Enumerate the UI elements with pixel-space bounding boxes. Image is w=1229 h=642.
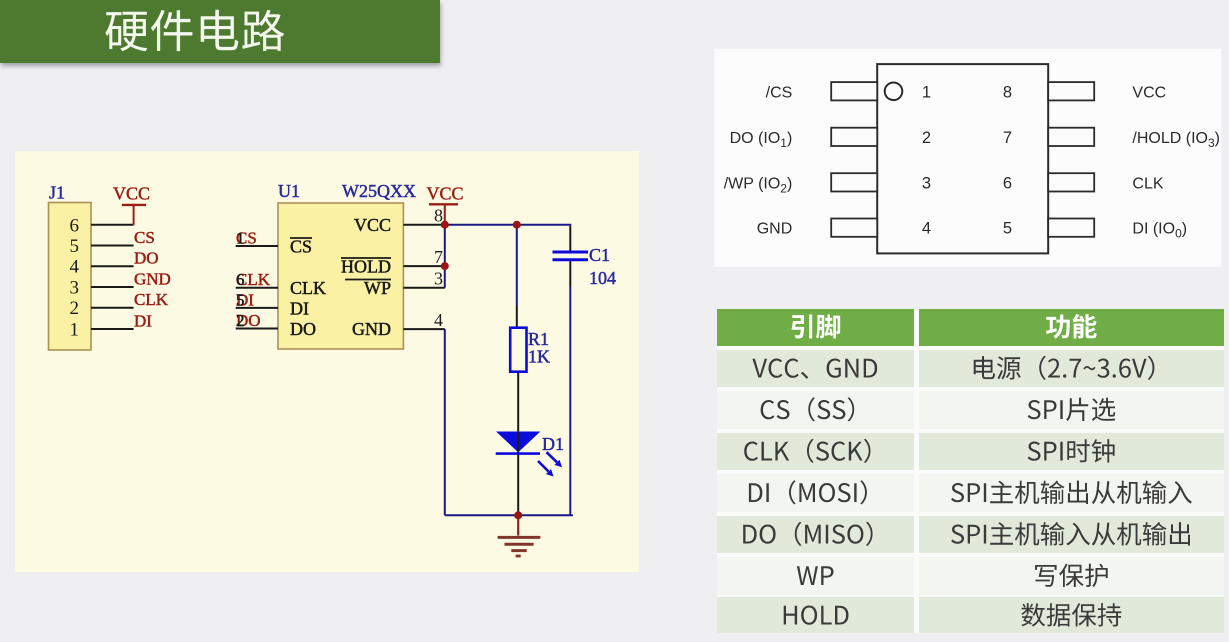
svg-text:D1: D1 [542,434,564,454]
schematic panel [0,0,700,642]
pin label VCC [1132,84,1166,101]
pin label /WP (IO2) [724,175,793,195]
power VCC (U1) [427,184,464,225]
svg-text:DO: DO [290,319,316,339]
table row 4 function cell [951,481,1192,505]
net label DO (J1) [134,249,159,268]
svg-text:GND: GND [352,319,391,339]
U1 pin name DI [290,299,309,319]
left lead pin 1 [831,82,877,100]
U1 pin number 1 [236,229,245,248]
U1 pin 1 wire (CS) [236,245,278,247]
U1 pin name VCC [354,215,391,235]
net label DI (U1) [236,290,254,309]
U1 pin 3 wire (WP) [403,287,444,289]
IC U1 body [278,203,403,349]
svg-text:VCC: VCC [1132,84,1166,101]
left lead pin 4 [831,219,877,237]
C1 label [589,245,616,288]
svg-text:GND: GND [757,221,793,238]
svg-text:VCC: VCC [113,184,150,204]
J1 pin 2 wire [91,307,134,309]
pin number 4 [922,220,931,238]
svg-text:J1: J1 [49,183,65,203]
svg-text:DO: DO [134,249,159,268]
U1 pin 7 wire (HOLD) [403,265,444,267]
J1 designator [49,183,65,203]
J1 pin 4 wire [91,265,134,267]
D1 label [542,434,564,454]
right lead pin 6 [1048,173,1094,191]
U1 pin name HOLD (overbar) [341,257,391,277]
pin number 6 [1003,174,1012,192]
wire bottom rail [445,514,573,516]
pin number 7 [1003,129,1012,147]
table row 4 pin cell [749,480,867,504]
pinout panel [700,40,1229,280]
net label CLK (J1) [134,290,169,309]
U1 pin 6 wire (CLK) [236,287,278,289]
net label CS (J1) [134,228,155,247]
wire R1 top [516,225,518,328]
U1 pin number 6 [236,270,245,289]
svg-text:/CS: /CS [766,84,793,101]
U1 pin number 3 [434,269,443,289]
svg-text:DI: DI [290,299,309,319]
right lead pin 7 [1048,128,1094,146]
pin label /CS [766,84,793,101]
table header 引脚 [791,314,840,338]
net label CS (U1) [236,229,257,248]
svg-text:CS: CS [134,228,155,247]
svg-text:4: 4 [922,220,931,238]
pin label CLK [1132,175,1163,192]
table header 功能 [1046,314,1097,339]
svg-text:1: 1 [70,320,80,341]
U1 pin number 2 [236,311,245,330]
U1 pin name DO [290,319,316,339]
table row 7 function cell [1021,603,1121,627]
wire VCC vertical (pin8 to WP) [444,225,446,288]
table row 3 pin cell [744,439,870,463]
pin number 5 [1003,220,1012,238]
svg-text:2: 2 [70,298,80,319]
banner text 硬件电路 [105,10,284,52]
U1 pin number 4 [434,310,443,330]
J1 pin numbers [70,215,80,340]
wire LED to ground [517,454,519,516]
J1 pin 3 wire [91,286,134,288]
net label DI (J1) [134,312,152,331]
chip body [877,64,1048,253]
pin number 1 [922,83,931,101]
pin label DI (IO0) [1132,221,1187,241]
junction dot [514,511,522,519]
U1 pin 4 wire (GND) [403,328,444,330]
U1 pin number 7 [434,247,443,267]
U1 pin name CLK [290,278,326,298]
svg-text:CLK: CLK [134,290,169,309]
svg-text:4: 4 [434,310,443,330]
svg-text:4: 4 [70,257,80,278]
svg-text:6: 6 [236,270,245,289]
pin label DO (IO1) [730,130,793,150]
U1 pin 8 wire (VCC) [403,224,444,226]
table row 5 function cell [951,522,1190,546]
svg-text:VCC: VCC [354,215,391,235]
svg-text:VCC: VCC [427,184,464,204]
net label CLK (U1) [236,270,271,289]
svg-text:6: 6 [70,215,80,236]
pin 1 index circle [885,83,903,101]
connector J1 body [49,203,92,351]
net label GND (J1) [134,270,171,289]
svg-text:/HOLD (IO3): /HOLD (IO3) [1132,130,1220,150]
svg-text:U1: U1 [278,181,300,201]
svg-text:3: 3 [70,278,80,299]
U1 pin name GND [352,319,391,339]
svg-text:3: 3 [922,174,931,192]
svg-text:8: 8 [1003,83,1012,101]
svg-text:1: 1 [922,83,931,101]
U1 pin number 8 [434,206,443,226]
table row 7 pin cell [784,606,849,625]
table row 2 function cell [1028,398,1116,422]
svg-text:C1: C1 [589,245,610,265]
pin number 3 [922,174,931,192]
ground [498,515,541,556]
table row 6 function cell [1035,564,1108,588]
svg-text:7: 7 [1003,129,1012,147]
svg-text:DI: DI [134,312,152,331]
table row 1 function cell [974,356,1155,380]
svg-text:5: 5 [1003,220,1012,238]
svg-text:2: 2 [922,129,931,147]
table row 1 pin cell [752,359,877,379]
U1 pin 2 wire (DO) [236,328,278,330]
svg-text:6: 6 [1003,174,1012,192]
U1 pin 5 wire (DI) [236,307,278,309]
wire VCC rail horizontal [445,224,572,226]
power VCC (J1) [113,184,150,225]
left lead pin 3 [831,173,877,191]
pin label GND [757,221,793,238]
svg-text:5: 5 [236,290,245,309]
svg-text:WP: WP [364,278,391,298]
junction dot [513,221,521,229]
table row 2 pin cell [761,397,855,421]
U1 pin number 5 [236,290,245,309]
J1 pin 1 wire [91,328,134,330]
pin number 2 [922,129,931,147]
U1 pin name WP (overbar) [345,278,391,298]
pin function table [717,309,1224,633]
svg-text:CS: CS [290,237,312,257]
svg-text:1: 1 [236,229,245,248]
pin number 8 [1003,83,1012,101]
svg-text:3: 3 [434,269,443,289]
table row 3 function cell [1028,439,1115,463]
capacitor C1 [553,252,589,260]
svg-text:2: 2 [236,311,245,330]
svg-text:GND: GND [134,270,171,289]
svg-text:104: 104 [589,268,616,288]
junction dot [441,221,449,229]
svg-text:CLK: CLK [1132,175,1163,192]
junction dot [441,262,449,270]
svg-text:5: 5 [70,236,80,257]
table row 5 pin cell [743,522,872,546]
J1 pin 5 wire [91,245,134,247]
title banner [0,0,440,63]
svg-text:CLK: CLK [290,278,326,298]
wire C1 top (pin stub) [569,226,571,251]
net label DO (U1) [236,311,261,330]
left lead pin 2 [831,128,877,146]
svg-text:W25QXX: W25QXX [342,181,416,201]
wire C1 bottom [569,261,571,515]
wire R1 to LED [517,372,519,432]
U1 pin name CS (overbar) [290,237,312,257]
LED D1 [496,432,562,477]
J1 pin 6 wire [91,224,134,226]
right lead pin 8 [1048,82,1094,100]
pin label /HOLD (IO3) [1132,130,1220,150]
R1 label [528,329,550,367]
U1 designator [278,181,300,201]
right lead pin 5 [1048,219,1094,237]
wire GND net vertical [444,329,446,515]
table row 6 pin cell [797,566,834,585]
svg-text:1K: 1K [528,347,550,367]
resistor R1 [510,328,526,372]
U1 value W25QXX [342,181,416,201]
svg-text:HOLD: HOLD [341,257,391,277]
